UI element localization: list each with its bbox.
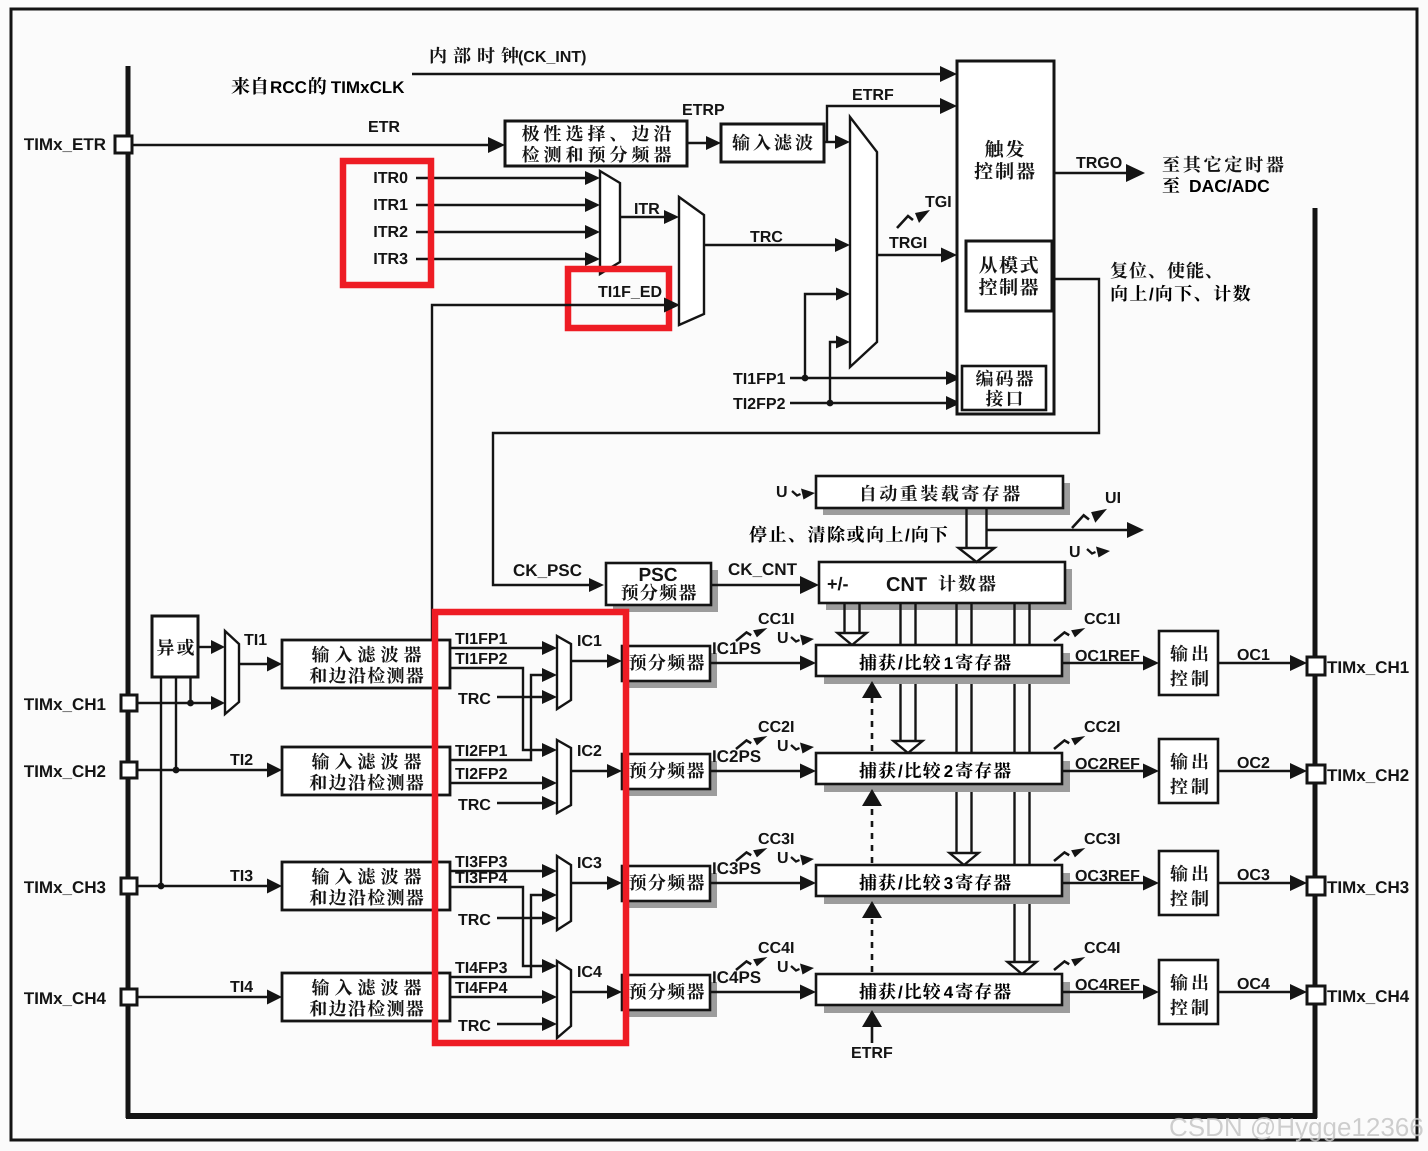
wire IC1PS [710,642,816,670]
wire OC4 [1218,978,1307,1000]
wire filter to trigger mux [824,135,850,149]
mux ITR select [600,171,620,274]
box XOR [152,616,198,677]
wire IC4 [571,966,622,999]
bottom bus [126,1113,1317,1119]
wire XOR output [198,640,225,654]
wire CK_CNT [711,563,819,594]
box PSC prescaler [606,563,718,612]
label TIMx_CH1 left [24,698,105,712]
wire OC2 [1218,757,1307,779]
wire IC4PS [710,971,816,999]
wire TI3FP3 [450,856,557,878]
label TIMx_CH4 left [24,992,106,1006]
box capture compare register 4 [816,974,1070,1013]
wire ETRF to trigger controller [827,89,957,142]
event marker U ch1 capture [778,632,814,646]
watermark CSDN [1170,1117,1422,1141]
event marker CC3I left [736,833,793,861]
wire TI2FP2 [450,768,557,790]
mux IC3 select [557,856,571,930]
mux IC4 select [557,961,571,1038]
wire ITR3 [374,252,600,266]
wire ETR [132,121,505,153]
wire ETRF into capture4 [852,1010,892,1058]
event marker CC1I left [736,613,793,641]
label internal clock CK_INT [431,47,586,66]
wire ITR [620,203,679,224]
label TIMx_CH1 right [1327,661,1408,675]
box capture compare register 1 [816,645,1070,684]
box auto-reload register [816,476,1070,515]
mux IC2 select [557,740,571,813]
box prescaler ch4 [622,975,717,1017]
wire IC2 [571,745,622,778]
box slave mode controller [966,241,1052,311]
label TIMx_CH2 right [1327,769,1408,783]
event marker CC2I left [736,721,793,749]
pad TIMx_CH1 input [121,695,137,711]
box prescaler ch1 [622,646,717,688]
mux IC1 select [557,636,571,709]
wire TRC [704,231,850,252]
wire OC3REF [1062,870,1159,891]
wire TRC to IC3 [458,911,557,925]
wire TI1FP2 cross down [450,653,557,757]
wire TRC to IC2 [458,796,557,810]
wire OC1 [1218,649,1307,671]
label stop clear up/down [749,526,947,543]
box capture compare register 2 [816,753,1070,792]
wire TI4FP4 [450,982,557,1004]
label TIMx_ETR [24,138,106,152]
wire TI1 [239,634,282,672]
pad TIMx_CH1 output [1307,657,1325,675]
wire IC2PS [710,750,816,778]
box input filter edge detector ch4 [282,973,450,1021]
mux TRC select [679,197,704,325]
label TIMx_CH2 left [24,765,105,779]
hollow arrow counter to capture1 [838,603,867,645]
box output control ch2 [1159,739,1218,803]
wire XOR taps [158,677,194,889]
box input filter edge detector ch1 [282,640,450,688]
label from-RCC TIMxCLK [231,77,404,95]
box trigger controller [957,61,1054,414]
box capture compare register 3 [816,865,1070,904]
pad TIMx_ETR [115,136,132,153]
wire TI2FP1 cross up [450,668,557,760]
wire IC1 [571,635,622,668]
event marker U on reload [777,486,815,500]
wire TI2 [137,754,282,778]
box prescaler ch2 [622,754,717,796]
hollow arrow counter to capture2 [894,603,923,753]
wire TRC to IC1 [458,690,557,704]
label to other timers [1163,156,1284,173]
left input bus [126,66,131,1118]
wire TRGO [1054,157,1145,182]
event marker CC3I right [1054,833,1119,861]
wire ETRP [683,104,724,150]
hollow arrow counter to capture3 [950,603,979,865]
wire update event out [987,522,1144,538]
pad TIMx_CH3 output [1307,877,1325,895]
wire TI3FP4 cross down [450,872,557,973]
wire TI1FP1 riser to trigger mux [805,288,850,379]
wire ITR1 [374,198,600,212]
box output control ch4 [1159,960,1218,1024]
mux trigger input select [850,117,877,367]
box CNT counter [819,562,1072,610]
wire IC3 [571,857,622,890]
label TIMx_CH3 left [24,881,105,895]
wire TRC to IC4 [458,1017,557,1031]
box input filter edge detector ch2 [282,747,450,795]
wire TI2FP2 riser to trigger mux [830,336,850,404]
event marker TGI [897,196,951,228]
wire TI1FP1 [450,633,557,655]
wire IC3PS [710,862,816,890]
wire CH1 to mux [137,696,225,710]
event marker U ch2 capture [778,740,814,754]
wire ITR2 [374,225,600,239]
right output bus [1313,208,1318,1118]
event marker U right [1070,546,1110,558]
label reset enable [1111,262,1211,279]
box prescaler ch3 [622,866,717,908]
event marker CC2I right [1054,721,1119,749]
red highlight ITR0-ITR3 [343,161,431,285]
wire CK_INT [412,66,957,82]
wire TRGI [877,237,957,263]
pad TIMx_CH4 output [1307,986,1325,1004]
box input filter edge detector ch3 [282,862,450,910]
wire TI4FP3 cross up [450,888,557,977]
label TIMx_CH4 right [1327,990,1409,1004]
pad TIMx_CH2 output [1307,765,1325,783]
wire ETRF reset dashed [862,681,882,972]
red highlight capture mux region [435,612,626,1043]
pad TIMx_CH2 input [121,762,137,778]
mux TI1 select [225,631,239,714]
box encoder interface [962,366,1046,410]
event marker UI [1072,492,1120,528]
wire TI3 [137,870,282,894]
label CK_PSC [514,564,582,578]
wire OC4REF [1062,979,1159,1000]
event marker U ch3 capture [778,852,814,866]
pad TIMx_CH3 input [121,878,137,894]
event marker U ch4 capture [778,961,814,975]
pad TIMx_CH4 input [121,989,137,1005]
event marker CC4I right [1054,942,1119,970]
hollow arrow counter to capture4 [1008,603,1037,974]
wire slave mode feedback to PSC [493,279,1099,592]
label to DAC/ADC [1163,177,1270,193]
event marker CC1I right [1054,613,1119,641]
wire ITR0 [374,171,600,185]
wire OC3 [1218,869,1307,891]
wire OC2REF [1062,758,1159,779]
wire TI1F_ED from channel1 filter [432,286,680,640]
label TIMx_CH3 right [1327,881,1408,895]
box output control ch1 [1159,631,1218,695]
wire TI4 [137,981,282,1005]
red highlight TI1F_ED [568,269,669,328]
label up/down count [1112,285,1251,302]
wire TI1FP1 to encoder [733,371,961,385]
wire TI2FP2 to encoder [733,396,961,410]
box input filter [721,124,824,162]
box output control ch3 [1159,851,1218,915]
hollow arrow reload to counter [959,508,995,562]
wire OC1REF [1062,650,1159,671]
event marker CC4I left [736,942,793,970]
box polarity selection edge detector prescaler [505,121,687,166]
